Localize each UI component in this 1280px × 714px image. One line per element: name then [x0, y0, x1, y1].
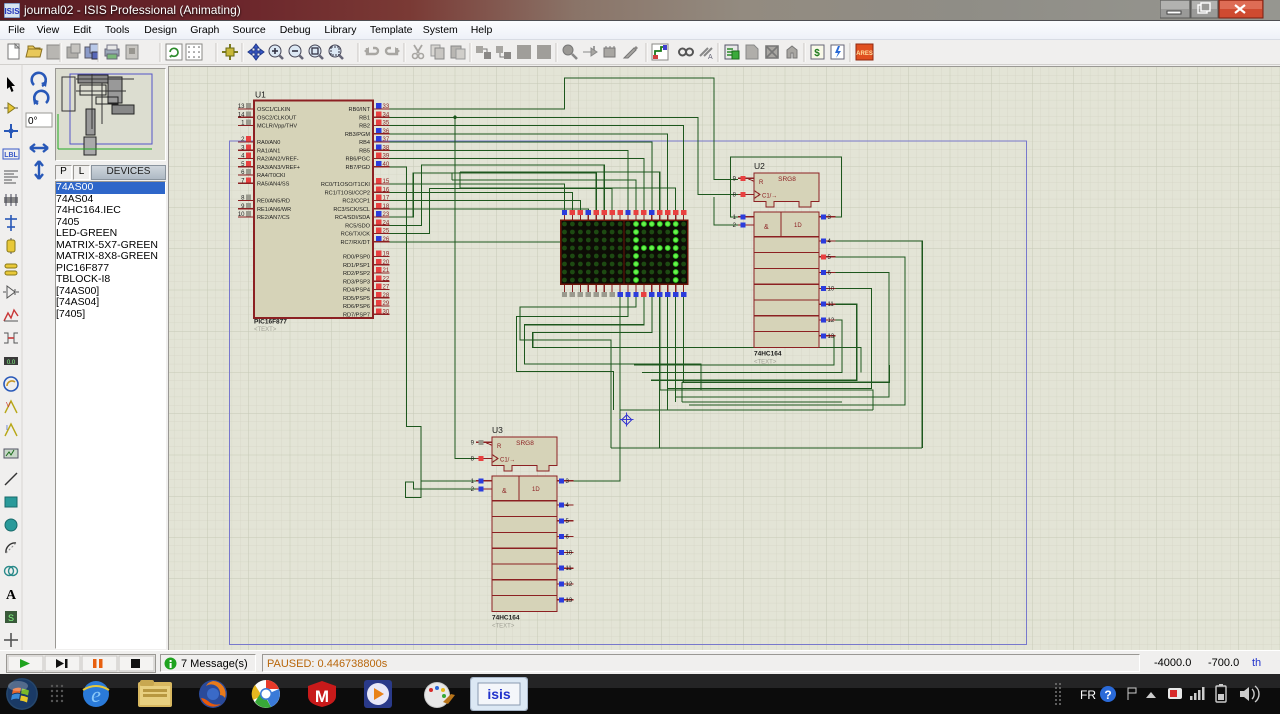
- svg-text:27: 27: [383, 285, 390, 291]
- svg-text:10: 10: [828, 286, 835, 292]
- wire to matrix C10: [452, 180, 636, 212]
- svg-text:RE1/AN6/WR: RE1/AN6/WR: [257, 207, 291, 213]
- svg-text:?: ?: [1104, 688, 1111, 702]
- svg-text:RA3/AN3/VREF+: RA3/AN3/VREF+: [257, 165, 300, 171]
- svg-text:74HC164: 74HC164: [492, 614, 520, 621]
- svg-text:RA5/AN4/SS: RA5/AN4/SS: [257, 182, 290, 188]
- svg-text:RD4/PSP4: RD4/PSP4: [343, 288, 370, 294]
- svg-text:A: A: [708, 54, 713, 61]
- svg-text:RB0/INT: RB0/INT: [349, 107, 371, 113]
- svg-text:39: 39: [383, 154, 390, 160]
- wire matrix R2 nest: [520, 292, 636, 448]
- svg-text:RB6/PGC: RB6/PGC: [345, 157, 370, 163]
- wire U3 A tap: [421, 480, 476, 482]
- wire RC6 to matrix C7: [390, 189, 613, 234]
- svg-text:29: 29: [383, 301, 390, 307]
- svg-text:R: R: [759, 180, 764, 186]
- svg-text:RD7/PSP7: RD7/PSP7: [343, 313, 370, 319]
- IC U2 74HC164: [733, 161, 836, 365]
- svg-text:22: 22: [383, 277, 390, 283]
- svg-text:V: V: [6, 402, 11, 409]
- wire RC1 to matrix C2: [390, 192, 573, 212]
- svg-text:<TEXT>: <TEXT>: [754, 359, 777, 365]
- svg-text:21: 21: [383, 268, 390, 274]
- svg-text:isis: isis: [487, 686, 511, 702]
- wire U2 Q5 nest: [651, 304, 857, 380]
- svg-text:RE0/AN5/RD: RE0/AN5/RD: [257, 199, 290, 205]
- svg-text:38: 38: [383, 146, 390, 152]
- wire RC5 to matrix C6: [390, 165, 605, 225]
- svg-text:20: 20: [383, 260, 390, 266]
- svg-text:19: 19: [383, 252, 390, 258]
- svg-text:23: 23: [383, 212, 390, 218]
- svg-text:RE2/AN7/CS: RE2/AN7/CS: [257, 215, 290, 221]
- svg-text:40: 40: [383, 162, 390, 168]
- svg-text:RB7/PGD: RB7/PGD: [345, 165, 370, 171]
- svg-text:10: 10: [238, 212, 245, 218]
- svg-text:0°: 0°: [28, 116, 38, 127]
- svg-text:13: 13: [828, 334, 835, 340]
- svg-text:35: 35: [383, 121, 390, 127]
- IC U3 74HC164: [471, 425, 574, 629]
- svg-text:RC3/SCK/SCL: RC3/SCK/SCL: [333, 207, 370, 213]
- svg-text:34: 34: [383, 113, 390, 119]
- wire nest h2: [660, 390, 873, 410]
- wire RB7 to U3 B: [390, 167, 477, 498]
- svg-text:PIC16F877: PIC16F877: [254, 319, 287, 326]
- junction: [453, 116, 457, 120]
- svg-text:U3: U3: [492, 425, 503, 435]
- wire matrix R5 drop: [659, 292, 661, 390]
- wire matrix R6 drop: [667, 292, 669, 410]
- svg-text:30: 30: [383, 310, 390, 316]
- svg-text:25: 25: [383, 229, 390, 235]
- svg-text:RD6/PSP6: RD6/PSP6: [343, 304, 370, 310]
- wire RC0 to matrix C1: [390, 184, 565, 212]
- svg-text:R: R: [497, 444, 502, 450]
- wire RB5 to matrix C9: [390, 150, 629, 212]
- svg-text:OSC1/CLKIN: OSC1/CLKIN: [257, 107, 290, 113]
- wire U2 Q7 nest: [634, 336, 836, 365]
- svg-text:RB4: RB4: [359, 140, 370, 146]
- wire matrix C8 bottom to U3 Q0: [572, 292, 621, 481]
- wire RB1 to U2 CLK: [390, 117, 739, 194]
- wire matrix R7 drop: [675, 292, 677, 402]
- svg-text:16: 16: [383, 188, 390, 194]
- wire nest h1: [682, 365, 890, 382]
- wire RC4 to matrix C5: [390, 173, 597, 217]
- IC U1 PIC16F877: [238, 90, 390, 334]
- wire RB2 to matrix C16: [390, 126, 684, 213]
- svg-text:&: &: [502, 488, 507, 495]
- svg-text:$: $: [814, 48, 820, 59]
- svg-text:A: A: [6, 588, 17, 603]
- wire matrix R3 nest: [525, 292, 702, 390]
- svg-text:10: 10: [566, 550, 573, 556]
- svg-text:RD2/PSP2: RD2/PSP2: [343, 271, 370, 277]
- wire nest v1: [681, 382, 683, 402]
- svg-text:RA4/T0CKI: RA4/T0CKI: [257, 173, 286, 179]
- svg-text:RB3/PGM: RB3/PGM: [345, 132, 371, 138]
- svg-text:C1/→: C1/→: [762, 194, 777, 200]
- sheet border: [230, 141, 1027, 645]
- svg-text:RC6/TX/CK: RC6/TX/CK: [341, 232, 370, 238]
- svg-text:12: 12: [566, 582, 573, 588]
- svg-text:RD3/PSP3: RD3/PSP3: [343, 280, 370, 286]
- svg-text:<TEXT>: <TEXT>: [254, 327, 277, 333]
- svg-text:RC1/T1OSI/CCP2: RC1/T1OSI/CCP2: [325, 191, 370, 197]
- svg-text:RC5/SDO: RC5/SDO: [345, 224, 371, 230]
- wire RC7 to matrix C8: [390, 212, 621, 242]
- svg-text:13: 13: [238, 104, 245, 110]
- svg-text:18: 18: [383, 204, 390, 210]
- svg-text:15: 15: [383, 179, 390, 185]
- LED matrix DS1 16x8: [561, 210, 688, 297]
- wire stub2: [451, 173, 453, 180]
- svg-text:0.0: 0.0: [7, 360, 16, 366]
- svg-text:26: 26: [383, 237, 390, 243]
- wire RB0 to U2 MR: [390, 78, 739, 180]
- svg-text:SRG8: SRG8: [516, 440, 534, 447]
- wire U2 Q1 nest: [836, 241, 923, 448]
- wire U2 Q0 to A: [731, 157, 842, 217]
- wire matrix R4 nest: [533, 292, 861, 372]
- svg-text:ISIS: ISIS: [4, 7, 20, 16]
- wire to matrix C13: [460, 172, 660, 212]
- svg-text:LBL: LBL: [4, 152, 18, 159]
- wire U2 Q6 nest: [642, 320, 842, 372]
- svg-text:24: 24: [383, 221, 390, 227]
- wire nest h3: [682, 401, 842, 403]
- wire nest v2: [659, 390, 661, 448]
- svg-text:RC7/RX/DT: RC7/RX/DT: [340, 240, 370, 246]
- wire matrix R1 nest: [517, 292, 628, 410]
- wire nest h4: [620, 409, 873, 411]
- wire stub: [459, 172, 461, 188]
- wire to matrix C15: [460, 188, 676, 212]
- svg-text:ARES: ARES: [856, 51, 873, 57]
- svg-text:RC4/SDI/SDA: RC4/SDI/SDA: [335, 215, 370, 221]
- svg-text:RA0/AN0: RA0/AN0: [257, 140, 280, 146]
- svg-text:74HC164: 74HC164: [754, 350, 782, 357]
- svg-text:I: I: [6, 425, 8, 432]
- svg-text:OSC2/CLKOUT: OSC2/CLKOUT: [257, 116, 297, 122]
- svg-text:SRG8: SRG8: [778, 176, 796, 183]
- svg-text:11: 11: [566, 566, 573, 572]
- svg-text:<TEXT>: <TEXT>: [492, 623, 515, 629]
- wire U2 Q2 nest: [689, 257, 905, 405]
- svg-text:FR: FR: [1080, 688, 1096, 702]
- svg-text:RA1/AN1: RA1/AN1: [257, 149, 280, 155]
- svg-text:RC2/CCP1: RC2/CCP1: [342, 199, 370, 205]
- svg-text:36: 36: [383, 129, 390, 135]
- wire RC3 to matrix C4: [390, 209, 589, 212]
- svg-text:RD5/PSP5: RD5/PSP5: [343, 296, 370, 302]
- wire U2 B: [714, 197, 738, 225]
- svg-text:RA2/AN2/VREF-: RA2/AN2/VREF-: [257, 157, 299, 163]
- svg-text:RD1/PSP1: RD1/PSP1: [343, 263, 370, 269]
- svg-text:&: &: [764, 224, 769, 231]
- svg-text:11: 11: [828, 302, 835, 308]
- wire branch to U3 CLK: [455, 117, 476, 458]
- wire RC2 to matrix C3: [390, 201, 581, 213]
- svg-text:MCLR/Vpp/THV: MCLR/Vpp/THV: [257, 124, 297, 130]
- cursor marker: [620, 413, 634, 427]
- wire RB3 to matrix C14: [390, 134, 668, 212]
- svg-text:RB1: RB1: [359, 116, 370, 122]
- svg-text:U2: U2: [754, 161, 765, 171]
- svg-text:S: S: [8, 613, 14, 623]
- svg-text:RC0/T1OSO/T1CKI: RC0/T1OSO/T1CKI: [321, 182, 371, 188]
- svg-text:33: 33: [383, 104, 390, 110]
- svg-text:28: 28: [383, 293, 390, 299]
- svg-text:14: 14: [238, 113, 245, 119]
- svg-text:1D: 1D: [532, 487, 540, 493]
- svg-text:RD0/PSP0: RD0/PSP0: [343, 255, 370, 261]
- svg-text:C1/→: C1/→: [500, 458, 515, 464]
- svg-text:17: 17: [383, 196, 390, 202]
- wire RB6 to matrix C11: [390, 159, 644, 213]
- svg-text:12: 12: [828, 318, 835, 324]
- wire nest h5: [611, 447, 922, 449]
- wire U2 Q3 nest: [676, 273, 889, 397]
- svg-text:1D: 1D: [794, 223, 802, 229]
- svg-text:M: M: [315, 687, 329, 706]
- svg-text:13: 13: [566, 598, 573, 604]
- svg-text:U1: U1: [255, 90, 266, 100]
- svg-text:37: 37: [383, 137, 390, 143]
- svg-text:RB2: RB2: [359, 124, 370, 130]
- wire U2 Q4 nest: [667, 288, 871, 388]
- wire matrix R8 drop: [683, 292, 685, 382]
- wire RB4 to matrix C12: [390, 142, 652, 212]
- svg-text:RB5: RB5: [359, 149, 370, 155]
